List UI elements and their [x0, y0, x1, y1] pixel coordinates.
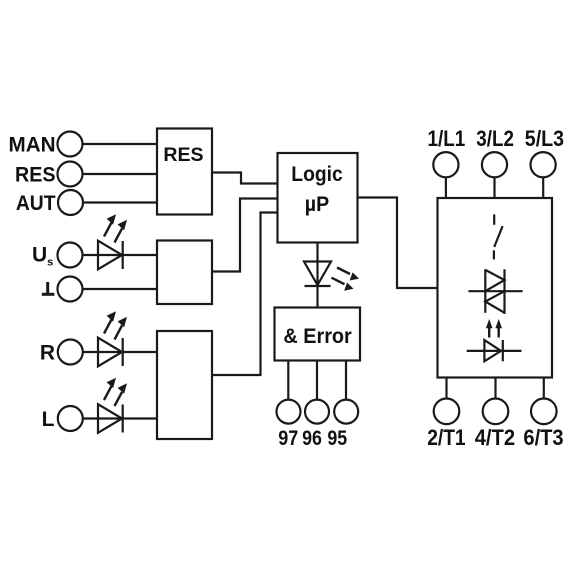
- svg-text:RES: RES: [15, 163, 56, 186]
- svg-text:µP: µP: [305, 193, 329, 216]
- svg-text:RES: RES: [163, 144, 203, 166]
- svg-text:R: R: [40, 341, 55, 364]
- svg-text:Us: Us: [32, 244, 53, 269]
- svg-text:5/L3: 5/L3: [525, 126, 564, 151]
- svg-text:MAN: MAN: [9, 133, 56, 156]
- svg-text:6/T3: 6/T3: [523, 425, 563, 450]
- svg-text:& Error: & Error: [283, 325, 351, 348]
- svg-text:96: 96: [302, 427, 322, 450]
- svg-text:4/T2: 4/T2: [475, 425, 515, 450]
- svg-text:2/T1: 2/T1: [427, 425, 465, 450]
- svg-text:1/L1: 1/L1: [428, 126, 466, 151]
- svg-text:97: 97: [278, 427, 298, 450]
- svg-text:L: L: [42, 408, 55, 431]
- svg-text:95: 95: [327, 427, 347, 450]
- svg-text:AUT: AUT: [16, 192, 56, 215]
- svg-text:3/L2: 3/L2: [476, 126, 514, 151]
- svg-text:Logic: Logic: [291, 163, 343, 186]
